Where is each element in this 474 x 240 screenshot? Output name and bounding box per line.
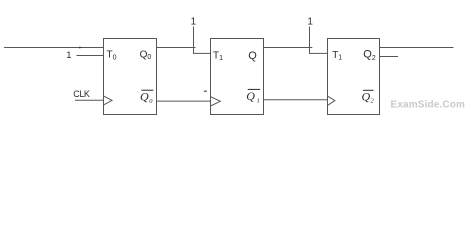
- svg-text:Q: Q: [248, 50, 257, 62]
- clock edge triangle FF1: [211, 97, 221, 106]
- svg-text:Q2: Q2: [363, 49, 376, 62]
- svg-text:Q1: Q1: [246, 89, 260, 105]
- wire: Q̄1 output to FF2 clock: [264, 99, 328, 101]
- svg-text:1: 1: [307, 17, 313, 28]
- wire: clock input rail into FF0: [5, 47, 104, 49]
- pin label Q̄0 (with overline): [140, 90, 153, 105]
- svg-text:Q0: Q0: [140, 50, 152, 61]
- wire: Q̄0 output to FF1 clock: [157, 100, 211, 102]
- svg-text:CLK: CLK: [73, 89, 90, 99]
- svg-text:1: 1: [191, 17, 197, 28]
- stray dash mark near FF1 clock: [204, 90, 207, 92]
- wire: Q0 output to stage-2 T junction: [157, 47, 196, 49]
- svg-text:T1: T1: [213, 50, 223, 62]
- wire: Q2 output line: [380, 47, 454, 49]
- wire: vertical drop from 1 across Q wire: [309, 27, 311, 54]
- wire: CLK to FF0 clock pin: [75, 99, 104, 101]
- svg-text:T1: T1: [332, 50, 342, 62]
- svg-text:ExamSide.Com: ExamSide.Com: [391, 99, 466, 110]
- svg-text:T0: T0: [107, 50, 117, 62]
- clock edge triangle FF0: [104, 96, 113, 105]
- svg-text:Q0: Q0: [140, 90, 153, 105]
- wire: Q output to stage-3 T junction: [264, 47, 313, 49]
- wire: T1 input stub into FF1: [194, 52, 211, 54]
- flip-flop FF2 body: [328, 39, 380, 115]
- wire: lower output stub of FF2: [380, 56, 399, 58]
- svg-text:Q2: Q2: [362, 89, 375, 104]
- wire: 1 to T0 input: [77, 55, 104, 57]
- pin label Q̄1 (with overline): [246, 89, 260, 105]
- flip-flop FF0 body: [104, 39, 157, 115]
- flip-flop FF1 body: [211, 39, 264, 115]
- clock edge triangle FF2: [328, 96, 335, 105]
- wire: vertical drop from 1 across Q0 wire: [193, 27, 195, 54]
- pin label Q̄2 (with overline): [362, 89, 375, 104]
- wire: T input stub into FF2: [310, 52, 328, 54]
- svg-text:1: 1: [66, 50, 71, 61]
- arrowhead on clock rail: [79, 47, 83, 49]
